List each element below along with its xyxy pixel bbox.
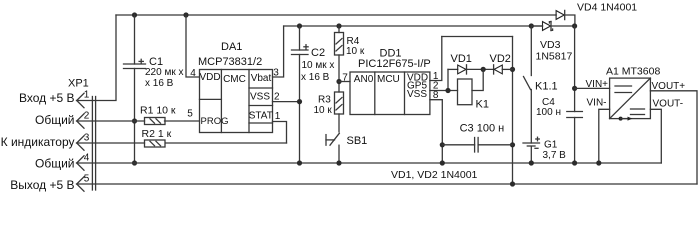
svg-text:SB1: SB1 [347, 135, 368, 147]
svg-text:Общий: Общий [35, 157, 75, 171]
wire VIN- line [587, 98, 610, 164]
pin 3 arrow К индикатору [77, 136, 84, 150]
node C2 / VSS [297, 99, 302, 104]
resistor R4 [335, 26, 365, 92]
node VIN+ / module [572, 86, 577, 91]
wire Vbat net [284, 25, 543, 27]
svg-text:3: 3 [273, 68, 279, 79]
svg-text:3: 3 [84, 133, 90, 144]
connector XP1 bracket [92, 97, 95, 191]
module A1 MT3608 [606, 66, 660, 121]
node G1 / ground rail [529, 160, 534, 165]
svg-text:10 к: 10 к [346, 46, 365, 57]
wire VOUT- line [650, 99, 683, 164]
svg-text:AN0: AN0 [354, 74, 374, 85]
svg-text:Вход +5 В: Вход +5 В [19, 91, 75, 105]
svg-text:VD2: VD2 [490, 53, 511, 65]
wire GP5 node vertical [447, 69, 449, 90]
svg-text:4: 4 [84, 153, 90, 164]
svg-text:K1.1: K1.1 [535, 81, 558, 93]
svg-text:VOUT-: VOUT- [653, 99, 684, 110]
svg-text:G1: G1 [544, 140, 558, 151]
svg-text:K1: K1 [476, 99, 489, 111]
node Vbat / R4 [336, 23, 341, 28]
svg-text:2: 2 [274, 92, 280, 103]
wire DD1 pin7 AN0 [339, 73, 350, 84]
capacitor C3 [440, 123, 513, 153]
svg-text:VOUT+: VOUT+ [652, 81, 686, 92]
wire VDD net vertical [512, 37, 514, 185]
resistor R2 [77, 128, 287, 147]
node Vbat / C2 [297, 23, 302, 28]
svg-text:VIN-: VIN- [587, 98, 607, 109]
svg-text:1: 1 [275, 111, 281, 122]
svg-text:3,7 В: 3,7 В [543, 150, 567, 161]
svg-text:К индикатору: К индикатору [1, 135, 75, 149]
node VD1/VD2 cathodes [481, 67, 486, 72]
svg-text:1: 1 [84, 90, 90, 101]
switch SB1 push button [326, 133, 367, 163]
switch K1.1 relay contact [524, 26, 558, 143]
svg-text:A1 MT3608: A1 MT3608 [606, 66, 660, 78]
svg-text:VD1: VD1 [451, 53, 472, 65]
wire output +5V rail [77, 183, 698, 185]
wire DA1 pin2 VSS [273, 92, 300, 103]
wire DD1 pin8 VSS to ground [430, 90, 442, 163]
node GP5 / pin2 [445, 88, 450, 93]
relay coil K1 [458, 69, 489, 110]
resistor R1 [77, 105, 200, 125]
pin 5 arrow Выход +5 В [77, 177, 84, 191]
wire VIN+ line [575, 79, 610, 90]
wire DA1 pin3 Vbat [273, 26, 284, 79]
capacitor C1 [124, 15, 184, 163]
wire DD1 pin1 VDD up [430, 37, 442, 83]
node C2 / ground rail [297, 160, 302, 165]
pin 1 arrow Вход +5 В [77, 93, 84, 107]
svg-text:10 мк х: 10 мк х [302, 60, 335, 71]
wire DD1 pin2 GP5 [430, 81, 458, 92]
node VDD net / output rail [510, 181, 515, 186]
node pin8 / ground rail [440, 160, 445, 165]
diode VD4 1N4001 [556, 2, 637, 27]
svg-text:Выход +5 В: Выход +5 В [10, 178, 74, 192]
node top rail C1 junction [132, 12, 137, 17]
node top rail DA1 VDD junction [183, 12, 188, 17]
diode VD1 [448, 53, 494, 74]
svg-text:8: 8 [433, 90, 439, 101]
svg-text:MCP73831/2: MCP73831/2 [198, 56, 262, 68]
svg-text:7: 7 [342, 73, 348, 84]
battery G1 [523, 137, 566, 163]
svg-text:5: 5 [84, 174, 90, 185]
node Vbat / K1.1 [529, 23, 534, 28]
svg-text:100 н: 100 н [536, 107, 561, 118]
node C1 / ground rail [132, 160, 137, 165]
svg-text:DA1: DA1 [221, 41, 242, 53]
wire R2 to DA1 STAT [273, 122, 287, 144]
svg-text:10 к: 10 к [314, 105, 333, 116]
node C1 / pin2 rail [132, 118, 137, 123]
wire VIN+ vertical [574, 26, 576, 112]
svg-text:R3: R3 [318, 95, 331, 106]
svg-text:STAT: STAT [249, 111, 273, 122]
capacitor C4 [536, 97, 582, 163]
capacitor C2 [292, 26, 335, 163]
MCU DD1 PIC12F675-I/P [350, 48, 431, 115]
svg-text:VDD: VDD [199, 72, 220, 83]
svg-text:СМС: СМС [223, 74, 246, 85]
svg-text:MCU: MCU [377, 74, 400, 85]
wire VOUT+ line [650, 81, 697, 184]
svg-text:R2 1 к: R2 1 к [142, 128, 172, 140]
svg-text:VSS: VSS [250, 92, 270, 103]
node VIN+ net / Vbat wire [572, 23, 577, 28]
node R4 / DD1 pin7 [336, 79, 341, 84]
wire ground rail (Общий) [77, 162, 662, 164]
node VDD net / VD2 [510, 67, 515, 72]
pin 4 arrow Общий [77, 156, 84, 170]
svg-text:х 16 В: х 16 В [145, 78, 174, 89]
svg-text:R1 10 к: R1 10 к [140, 105, 176, 117]
svg-text:C3 100 н: C3 100 н [460, 123, 505, 135]
wire top +5V rail [116, 14, 556, 16]
svg-text:1N5817: 1N5817 [536, 51, 573, 63]
svg-text:PROG: PROG [201, 116, 229, 127]
resistor R3 [314, 92, 344, 132]
pin 2 arrow Общий [77, 114, 84, 128]
node VIN- / ground rail [596, 160, 601, 165]
charger IC DA1 MCP73831/2 [198, 41, 273, 133]
svg-text:PIC12F675-I/P: PIC12F675-I/P [358, 58, 431, 70]
svg-text:Общий: Общий [35, 113, 75, 127]
svg-text:4: 4 [190, 68, 196, 79]
svg-text:220 мк х: 220 мк х [145, 67, 184, 78]
svg-text:VSS: VSS [407, 89, 427, 100]
svg-text:5: 5 [187, 109, 193, 120]
svg-text:ХР1: ХР1 [68, 78, 89, 90]
svg-text:Vbat: Vbat [251, 73, 272, 84]
svg-text:VIN+: VIN+ [586, 79, 609, 90]
diode VD2 [490, 53, 513, 74]
node VDD net / C3 [510, 142, 515, 147]
svg-text:х 16 В: х 16 В [301, 72, 330, 83]
svg-text:VD1, VD2 1N4001: VD1, VD2 1N4001 [391, 169, 478, 181]
svg-text:VD3: VD3 [540, 39, 561, 51]
svg-text:C2: C2 [311, 47, 325, 59]
svg-text:2: 2 [84, 111, 90, 122]
wire XP1 pin1 input [77, 15, 117, 101]
node SB1 / ground rail [336, 160, 341, 165]
node C4 / ground rail [572, 160, 577, 165]
wire VDD net top [442, 36, 513, 38]
wire DA1 pin4 VDD [186, 15, 200, 79]
svg-text:VD4 1N4001: VD4 1N4001 [577, 2, 637, 14]
diode VD3 1N5817 [531, 21, 574, 62]
